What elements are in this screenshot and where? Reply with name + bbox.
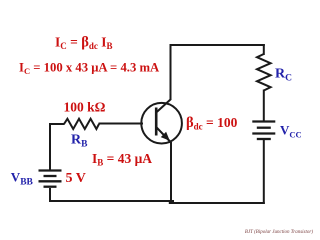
- svg-text:RB: RB: [71, 133, 88, 150]
- svg-text:100 kΩ: 100 kΩ: [64, 100, 106, 115]
- svg-text:VCC: VCC: [280, 123, 302, 140]
- svg-text:IC = βdc IB: IC = βdc IB: [55, 35, 113, 52]
- battery VBB: [39, 171, 62, 187]
- wire VBB top stub and corner to RB: [50, 124, 65, 170]
- wire VCC to bottom: [263, 140, 265, 204]
- svg-text:5 V: 5 V: [66, 171, 86, 186]
- wire emitter vertical: [170, 142, 172, 204]
- resistor RB: [64, 119, 99, 129]
- wire base: [99, 123, 144, 125]
- transistor Q1: [141, 99, 182, 144]
- wire collector vertical: [170, 45, 172, 100]
- wire bottom right: [169, 202, 265, 204]
- svg-text:βdc = 100: βdc = 100: [186, 115, 238, 132]
- wire VBB bottom stub: [49, 188, 51, 202]
- wire RC to VCC: [263, 90, 265, 122]
- svg-text:IB = 43 μA: IB = 43 μA: [92, 151, 152, 168]
- battery VCC: [252, 122, 275, 140]
- svg-text:VBB: VBB: [11, 169, 34, 187]
- svg-text:BJT (Bipolar Junction Transist: BJT (Bipolar Junction Transistor): [245, 230, 313, 235]
- wire top horizontal: [170, 44, 265, 46]
- wire bottom left: [49, 200, 174, 202]
- resistor RC: [257, 54, 271, 91]
- svg-text:IC = 100 x 43 μA = 4.3 mA: IC = 100 x 43 μA = 4.3 mA: [19, 61, 160, 77]
- wire RC top stub: [263, 44, 265, 55]
- svg-text:RC: RC: [275, 67, 292, 84]
